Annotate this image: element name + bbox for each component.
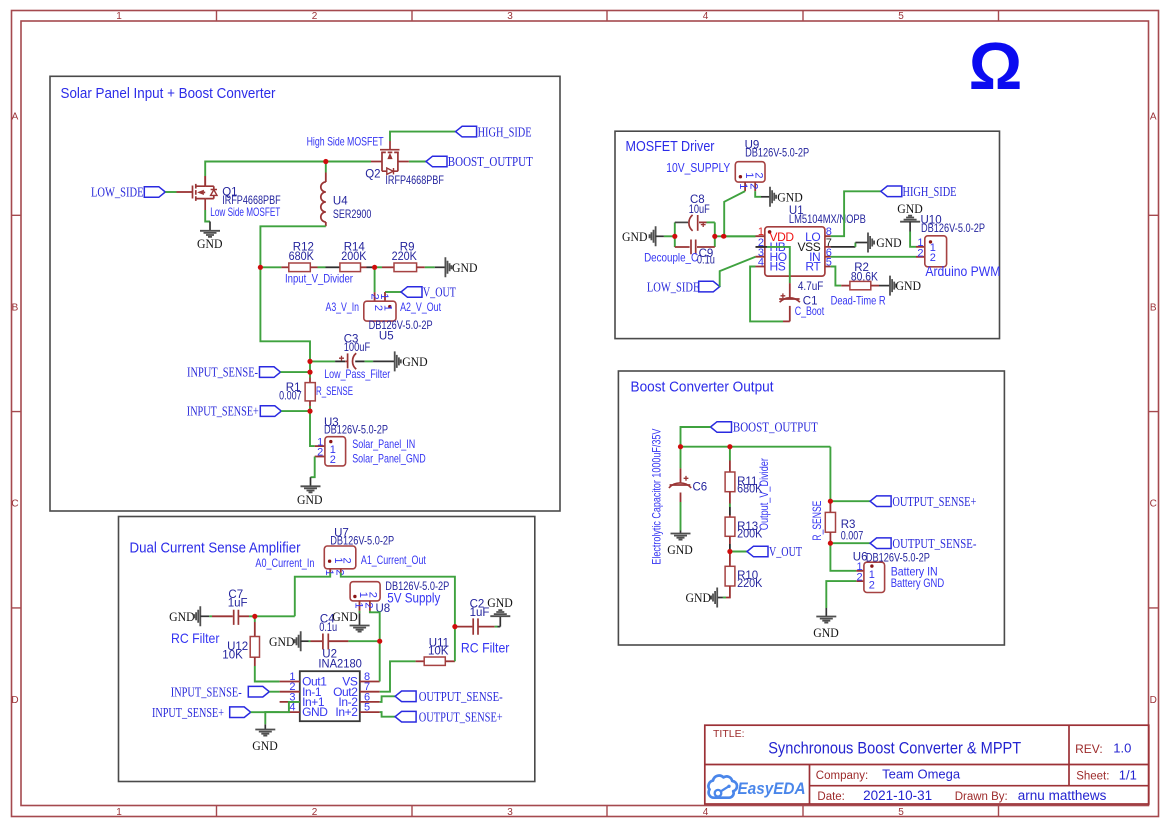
- capacitor C3: [339, 353, 356, 369]
- U1 right pin leads: [825, 236, 831, 266]
- capacitor C8: [689, 215, 706, 231]
- wire C3 to GND: [365, 360, 374, 362]
- resistor R9: [394, 263, 417, 272]
- U11 left pin: [416, 660, 425, 662]
- junction rail at R11: [727, 444, 732, 449]
- svg-text:GND: GND: [452, 260, 478, 275]
- capacitor C9: [675, 240, 715, 255]
- wire RT to R2: [831, 267, 842, 286]
- svg-text:SER2900: SER2900: [333, 209, 372, 221]
- frame row letters left: [11, 111, 18, 706]
- svg-text:0.007: 0.007: [279, 391, 302, 403]
- svg-text:A: A: [1150, 111, 1157, 122]
- ground GND at R10: [686, 588, 723, 608]
- R2 left pin: [841, 285, 850, 287]
- svg-text:Boost Converter Output: Boost Converter Output: [631, 379, 774, 395]
- svg-text:4: 4: [703, 807, 709, 818]
- svg-text:Battery GND: Battery GND: [891, 576, 945, 590]
- svg-text:C: C: [1150, 499, 1157, 510]
- svg-text:5: 5: [898, 807, 904, 818]
- net port BOOST_OUTPUT out: [711, 420, 818, 435]
- svg-text:GND: GND: [622, 229, 648, 244]
- svg-text:Date:: Date:: [817, 791, 845, 803]
- ground GND at C6: [667, 531, 693, 557]
- ground GND at C4: [269, 631, 309, 651]
- wire VDD rail to U1 pin1: [724, 235, 756, 237]
- U8 pins: [360, 601, 370, 611]
- svg-text:4: 4: [703, 11, 709, 22]
- U8 pin1 marker dot: [353, 595, 356, 598]
- wire C3 left: [310, 360, 335, 362]
- section box Boost Converter Output: [618, 371, 1004, 645]
- resistor U11: [424, 657, 445, 665]
- R3 top pin: [829, 501, 831, 512]
- wire U7 pin1 to C7 node: [295, 573, 330, 617]
- svg-text:RC Filter: RC Filter: [461, 639, 510, 655]
- wire R12 to R14: [318, 266, 326, 268]
- svg-text:V_OUT: V_OUT: [769, 544, 802, 559]
- U11 right pin: [445, 660, 455, 662]
- resistor R10: [725, 566, 735, 586]
- svg-text:R_SENSE: R_SENSE: [316, 384, 353, 398]
- C6 bottom pin: [680, 493, 682, 503]
- svg-text:B: B: [12, 302, 19, 313]
- svg-text:Low_Pass_Filter: Low_Pass_Filter: [324, 367, 390, 381]
- ground GND at U9: [761, 187, 803, 207]
- wire C6 top: [680, 447, 682, 469]
- U12 top pin: [254, 622, 256, 637]
- wire black segment R14 to junction: [367, 266, 375, 268]
- wire C8 top branch left: [675, 221, 688, 223]
- wire to OUTPUT_SENSE- flag: [830, 542, 870, 544]
- U2 left pin leads: [280, 682, 300, 713]
- wire GND pin to ground: [265, 712, 279, 724]
- svg-text:1: 1: [116, 807, 122, 818]
- wire Q1 drain lead: [204, 176, 206, 186]
- svg-text:GND: GND: [402, 354, 428, 369]
- wire HB to bootstrap cap: [767, 247, 790, 283]
- svg-text:TITLE:: TITLE:: [713, 728, 745, 740]
- capacitor C1: [779, 293, 800, 302]
- svg-text:BOOST_OUTPUT: BOOST_OUTPUT: [733, 420, 818, 435]
- wire C6 to ground: [680, 502, 682, 531]
- wire black segment HB: [756, 246, 768, 248]
- junction at INPUT_SENSE+: [307, 409, 312, 414]
- ground GND at U6: [813, 608, 839, 640]
- svg-text:2: 2: [330, 454, 336, 466]
- wire Out2 to U11: [380, 661, 416, 691]
- wire VS up to node: [379, 641, 381, 681]
- R12 left pin: [281, 266, 288, 268]
- wire LOW_SIDE to Q1 gate: [165, 191, 176, 193]
- svg-text:Low Side MOSFET: Low Side MOSFET: [210, 205, 280, 219]
- wire switch node Q1 drain to Q2 source: [205, 162, 371, 177]
- junction at inductor tap: [323, 159, 328, 164]
- junction C7 node: [252, 614, 257, 619]
- U6 pin leads: [856, 571, 864, 581]
- U1 left pin leads: [756, 236, 765, 266]
- title block frame: [705, 725, 1149, 804]
- svg-text:U8: U8: [376, 603, 391, 615]
- connector U3 body: [325, 437, 346, 466]
- wire U3 pin2 to ground: [311, 457, 315, 478]
- wire U12 to U2 pin1: [255, 666, 280, 682]
- ground GND above U10: [897, 201, 923, 232]
- svg-text:0.1u: 0.1u: [697, 254, 715, 266]
- svg-text:D: D: [11, 695, 18, 706]
- ground GND at C7: [169, 606, 209, 626]
- R9 left pin: [382, 266, 394, 268]
- svg-text:2: 2: [748, 183, 760, 189]
- ground GND at U3: [297, 477, 323, 507]
- svg-text:LOW_SIDE: LOW_SIDE: [647, 279, 700, 294]
- wire rail down to sense: [829, 447, 831, 502]
- svg-text:200K: 200K: [341, 251, 367, 263]
- section box MOSFET Driver: [615, 131, 1000, 338]
- wire rail to VDD junction: [715, 235, 756, 237]
- net port OUTPUT_SENSE+ amp: [395, 709, 503, 724]
- svg-text:220K: 220K: [392, 251, 418, 263]
- wire U9 pin2 to ground: [755, 191, 761, 197]
- junction OUTPUT_SENSE-: [828, 541, 833, 546]
- svg-text:5: 5: [898, 11, 904, 22]
- svg-text:C: C: [11, 499, 18, 510]
- R10 top pin: [729, 552, 731, 567]
- ground GND at C2: [487, 595, 513, 627]
- wire black segment C3 right: [355, 360, 364, 362]
- svg-text:B: B: [1150, 302, 1157, 313]
- svg-text:GND: GND: [487, 595, 513, 610]
- svg-text:2021-10-31: 2021-10-31: [863, 788, 932, 803]
- svg-text:GND: GND: [897, 201, 923, 216]
- connector U6 body: [864, 562, 885, 592]
- U5 pin1 marker dot: [388, 305, 391, 308]
- junction decoupling left: [672, 234, 677, 239]
- svg-text:5: 5: [364, 702, 370, 714]
- C2 left pin: [455, 626, 473, 628]
- svg-text:2: 2: [312, 11, 318, 22]
- transistor Q1: [193, 176, 218, 210]
- svg-text:arnu matthews: arnu matthews: [1018, 788, 1107, 803]
- net port BOOST_OUTPUT: [426, 154, 533, 169]
- svg-text:Solar_Panel_IN: Solar_Panel_IN: [352, 437, 415, 451]
- wire U6 pin2 to ground: [826, 581, 856, 608]
- svg-text:D: D: [1150, 695, 1157, 706]
- wire divider left to R12: [260, 266, 281, 268]
- C6 top pin: [680, 468, 682, 483]
- wire GND to C7: [209, 615, 212, 617]
- wire In-2 jog to flag: [380, 696, 395, 702]
- svg-text:1: 1: [323, 569, 335, 575]
- U6 pin1 marker dot: [870, 564, 873, 567]
- resistor R14: [340, 263, 361, 272]
- svg-text:2: 2: [856, 572, 862, 584]
- wire decoupling right rail: [714, 222, 716, 247]
- U7 pin1 marker dot: [328, 560, 331, 563]
- svg-text:Company:: Company:: [816, 770, 868, 782]
- svg-text:Output_V_Divider: Output_V_Divider: [757, 458, 771, 530]
- ground GND at U2: [252, 724, 278, 753]
- ground GND at VSS: [855, 233, 901, 253]
- svg-text:2: 2: [367, 592, 379, 598]
- wire output rail: [681, 446, 831, 448]
- net port V_OUT out: [747, 544, 802, 559]
- svg-text:A3_V_In: A3_V_In: [326, 300, 360, 314]
- capacitor C6: [669, 476, 691, 488]
- U3 pin1 lead: [315, 445, 325, 447]
- IC U1 body: [765, 227, 825, 276]
- svg-text:Sheet:: Sheet:: [1076, 771, 1109, 783]
- resistor R12: [289, 263, 311, 272]
- svg-text:0.007: 0.007: [841, 531, 864, 543]
- svg-text:V_OUT: V_OUT: [423, 285, 456, 300]
- svg-text:GND: GND: [302, 705, 328, 719]
- U10 pin1 marker dot: [929, 240, 932, 243]
- junction V_OUT: [727, 549, 732, 554]
- wire GND to decoupling rail: [664, 235, 675, 237]
- svg-text:1.0: 1.0: [1113, 741, 1131, 756]
- svg-text:GND: GND: [252, 738, 278, 753]
- svg-text:MOSFET Driver: MOSFET Driver: [626, 139, 715, 155]
- U10 pin leads: [916, 247, 925, 257]
- svg-text:1/1: 1/1: [1119, 768, 1137, 783]
- R13 top pin: [729, 515, 731, 517]
- wire C8 top branch right: [699, 221, 707, 223]
- svg-text:Drawn By:: Drawn By:: [955, 791, 1008, 803]
- R1 top pin: [309, 378, 311, 383]
- junction at divider left: [258, 265, 263, 270]
- capacitor C2: [473, 618, 478, 634]
- svg-text:R3: R3: [841, 519, 856, 531]
- svg-text:LOW_SIDE: LOW_SIDE: [91, 185, 144, 200]
- net port V_OUT: [401, 285, 456, 300]
- svg-text:3: 3: [507, 807, 513, 818]
- U3 pin1 marker dot: [329, 440, 332, 443]
- wire HS bootstrap loop: [750, 267, 783, 322]
- svg-text:GND: GND: [813, 625, 839, 640]
- svg-text:C_Boot: C_Boot: [795, 304, 825, 318]
- svg-text:1uF: 1uF: [228, 598, 248, 610]
- wire black segment to C3: [335, 360, 345, 362]
- svg-text:A0_Current_In: A0_Current_In: [255, 556, 314, 570]
- svg-text:Input_V_Divider: Input_V_Divider: [285, 271, 353, 285]
- wire node down to U3 pin1: [310, 411, 315, 446]
- net port LOW_SIDE: [91, 185, 165, 200]
- svg-text:GND: GND: [197, 236, 223, 251]
- C1 bottom pin: [789, 306, 791, 322]
- svg-text:A1_Current_Out: A1_Current_Out: [361, 553, 426, 567]
- svg-text:R_SENSE: R_SENSE: [810, 501, 824, 541]
- svg-text:In+2: In+2: [335, 705, 358, 719]
- resistor R11: [725, 472, 735, 492]
- svg-text:2: 2: [869, 579, 875, 591]
- wire VSS jog up: [854, 243, 856, 247]
- svg-text:DB126V-5.0-2P: DB126V-5.0-2P: [324, 425, 388, 437]
- svg-text:Team Omega: Team Omega: [882, 767, 961, 782]
- wire C4 to VS node: [348, 640, 379, 642]
- wire bootstrap loop pin segment: [783, 320, 790, 322]
- R2 right pin: [871, 285, 879, 287]
- svg-text:GND: GND: [777, 189, 803, 204]
- svg-text:U4: U4: [333, 196, 348, 208]
- frame row letters right: [1150, 111, 1157, 706]
- svg-text:DB126V-5.0-2P: DB126V-5.0-2P: [866, 553, 930, 565]
- wire C8 to right rail: [707, 221, 715, 223]
- wire GND to U10 pin1: [910, 232, 916, 247]
- R11 bottom pin: [729, 492, 731, 504]
- ground GND at C3: [373, 351, 428, 371]
- svg-text:2: 2: [341, 557, 353, 563]
- svg-text:1: 1: [352, 602, 364, 608]
- wire node to V_OUT flag: [730, 551, 747, 553]
- svg-text:INPUT_SENSE+: INPUT_SENSE+: [187, 404, 259, 419]
- svg-text:Electrolytic Capacitor 1000uF/: Electrolytic Capacitor 1000uF/35V: [649, 429, 663, 565]
- svg-text:DB126V-5.0-2P: DB126V-5.0-2P: [921, 223, 985, 235]
- wire INPUT_SENSE- to node: [281, 371, 311, 373]
- net port OUTPUT_SENSE- amp: [395, 689, 503, 704]
- C7 right pin: [238, 615, 249, 617]
- wire Q2 drain to BOOST_OUTPUT: [409, 161, 426, 163]
- svg-text:A2_V_Out: A2_V_Out: [400, 300, 441, 314]
- svg-text:HS: HS: [770, 260, 786, 274]
- transistor Q2: [371, 141, 409, 174]
- wire divider left rail down to sense node: [260, 267, 310, 361]
- R12 right pin: [310, 266, 317, 268]
- svg-text:INPUT_SENSE+: INPUT_SENSE+: [152, 705, 224, 720]
- ground GND at R2: [879, 276, 921, 296]
- net port INPUT_SENSE+ amp: [152, 705, 251, 720]
- wire node to R1: [309, 361, 311, 377]
- svg-text:GND: GND: [332, 609, 358, 624]
- wire U7 pin2 to C2 node: [341, 573, 455, 627]
- svg-text:2: 2: [312, 807, 318, 818]
- U12 bottom pin: [254, 657, 256, 666]
- C2 right pin: [478, 626, 495, 628]
- wire black segment VSS: [831, 246, 856, 248]
- svg-text:Dual Current Sense Amplifier: Dual Current Sense Amplifier: [130, 540, 301, 556]
- wire C2 to ground: [495, 626, 498, 628]
- svg-text:Arduino PWM: Arduino PWM: [925, 263, 1000, 279]
- svg-text:HIGH_SIDE: HIGH_SIDE: [903, 184, 957, 199]
- svg-text:Solar_Panel_GND: Solar_Panel_GND: [352, 451, 426, 465]
- net port OUTPUT_SENSE- out: [870, 536, 976, 551]
- svg-text:220K: 220K: [737, 578, 763, 590]
- EasyEDA logo: [708, 776, 737, 798]
- wire inductor bottom to divider rail: [260, 226, 325, 267]
- wire rail to R11: [729, 447, 731, 461]
- wire IN to Arduino PWM: [831, 256, 916, 258]
- junction at divider tap: [372, 265, 377, 270]
- section box Solar Panel Input + Boost Converter: [50, 76, 560, 511]
- wire BOOST_OUTPUT to rail: [681, 427, 711, 447]
- svg-text:2: 2: [333, 569, 345, 575]
- C7 left pin: [212, 615, 233, 617]
- svg-text:GND: GND: [896, 278, 922, 293]
- junction VS node: [377, 639, 382, 644]
- junction rail at C6: [678, 444, 683, 449]
- wire divider tap down to U5: [374, 267, 376, 292]
- svg-text:LM5104MX/NOPB: LM5104MX/NOPB: [789, 214, 866, 226]
- svg-text:High Side MOSFET: High Side MOSFET: [307, 134, 384, 148]
- svg-text:DB126V-5.0-2P: DB126V-5.0-2P: [745, 148, 809, 160]
- wire inductor top lead: [325, 162, 327, 173]
- svg-text:GND: GND: [297, 492, 323, 507]
- junction at INPUT_SENSE-: [307, 370, 312, 375]
- resistor R2: [850, 281, 871, 289]
- svg-text:IRFP4668PBF: IRFP4668PBF: [385, 175, 444, 187]
- wire INPUT_SENSE+ to In+1: [251, 702, 300, 712]
- svg-text:1: 1: [378, 293, 390, 299]
- svg-text:OUTPUT_SENSE+: OUTPUT_SENSE+: [419, 709, 503, 724]
- wire R9 to GND: [425, 266, 435, 268]
- connector U5 pins: [375, 292, 385, 301]
- connector U8 body: [350, 582, 380, 601]
- svg-text:10uF: 10uF: [689, 204, 710, 216]
- wire C7 node down to U12: [254, 616, 256, 622]
- svg-text:BOOST_OUTPUT: BOOST_OUTPUT: [448, 154, 533, 169]
- svg-text:1: 1: [381, 305, 393, 311]
- net port OUTPUT_SENSE+ out: [870, 494, 976, 509]
- resistor R3: [825, 512, 835, 532]
- svg-text:Ω: Ω: [969, 29, 1023, 104]
- ground GND at R9: [435, 257, 478, 277]
- wire U11 to C2 node: [454, 627, 456, 662]
- svg-text:10V_SUPPLY: 10V_SUPPLY: [666, 160, 730, 175]
- R9 right pin: [417, 266, 425, 268]
- C1 top pin: [789, 283, 791, 299]
- U9 pin1 marker dot: [739, 175, 742, 178]
- wire LO to HIGH_SIDE: [831, 191, 881, 236]
- wire Q1 gate lead: [177, 191, 193, 193]
- connector U9 body: [735, 162, 765, 182]
- R14 right pin: [361, 266, 367, 268]
- capacitor C4: [323, 634, 328, 650]
- U3 pin2 lead: [315, 456, 325, 458]
- svg-text:U5: U5: [379, 331, 394, 343]
- wire R10 to ground: [723, 597, 726, 599]
- resistor R1: [305, 383, 315, 401]
- wire R11 to R13 green bit: [729, 504, 731, 508]
- R11 top pin: [729, 461, 731, 473]
- connector U10 body: [925, 236, 947, 267]
- wire R1 to INPUT_SENSE+ node: [309, 406, 311, 411]
- junction C2 node: [452, 624, 457, 629]
- C4 right pin: [328, 640, 348, 642]
- wire sense node to U6 pin1: [830, 543, 856, 571]
- svg-text:Decouple_C: Decouple_C: [644, 251, 698, 265]
- U9 pins: [745, 182, 755, 191]
- svg-text:OUTPUT_SENSE-: OUTPUT_SENSE-: [892, 536, 976, 551]
- svg-text:A: A: [12, 111, 19, 122]
- net port INPUT_SENSE- amp: [171, 684, 270, 699]
- R1 bottom pin: [309, 401, 311, 406]
- wire LOW_SIDE to HO: [720, 257, 756, 287]
- frame column numbers bottom: [116, 807, 904, 818]
- ground GND at Q1: [197, 222, 223, 252]
- svg-text:10K: 10K: [428, 646, 449, 658]
- wire Q1 source to ground: [205, 210, 210, 222]
- svg-text:INA2180: INA2180: [318, 658, 362, 670]
- svg-text:2: 2: [317, 447, 323, 459]
- wire INPUT_SENSE+ to node: [281, 410, 310, 412]
- svg-text:4: 4: [289, 702, 295, 714]
- capacitor C7: [234, 610, 239, 625]
- svg-text:OUTPUT_SENSE-: OUTPUT_SENSE-: [419, 689, 503, 704]
- svg-text:2: 2: [753, 172, 765, 178]
- U1 pin1 marker dot: [768, 230, 772, 234]
- wire junction to R9: [375, 266, 382, 268]
- connector U5 body: [364, 301, 396, 321]
